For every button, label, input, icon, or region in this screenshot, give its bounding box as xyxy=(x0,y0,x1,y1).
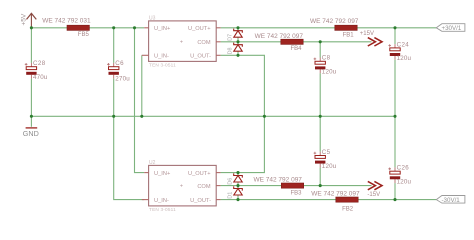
svg-text:U_OUT-: U_OUT- xyxy=(190,54,211,60)
svg-text:+: + xyxy=(180,40,183,46)
junction C6 rail xyxy=(112,115,115,118)
svg-text:120u: 120u xyxy=(397,179,412,186)
svg-text:120u: 120u xyxy=(322,163,337,170)
svg-text:C24: C24 xyxy=(397,41,410,48)
svg-text:U3: U3 xyxy=(149,15,156,21)
wire lower COM to -15V arrow xyxy=(221,185,372,187)
+15V output arrow xyxy=(368,38,382,46)
junction D6 D1 xyxy=(236,184,239,187)
svg-text:FB3: FB3 xyxy=(291,190,303,196)
wire C6 column upper xyxy=(113,28,115,63)
ferrite bead FB4 xyxy=(255,33,304,52)
junction D8 bottom xyxy=(236,54,239,57)
junction D7 D8 xyxy=(236,40,239,43)
svg-text:120u: 120u xyxy=(322,69,337,76)
svg-text:WE 742 792 097: WE 742 792 097 xyxy=(311,190,360,197)
junction C8 rail xyxy=(319,115,322,118)
-15V output arrow xyxy=(368,181,382,189)
wire C5 column lower xyxy=(319,167,321,185)
svg-text:U_IN-: U_IN- xyxy=(154,54,169,60)
wire U_OUT+ to +30V tag xyxy=(221,27,437,29)
junction out link rail xyxy=(263,115,266,118)
junction D6 top xyxy=(236,171,239,174)
junction gnd left xyxy=(30,115,33,118)
svg-text:270u: 270u xyxy=(115,76,130,83)
junction C26 bottom xyxy=(393,198,396,201)
wire C6 column to lower U_IN- xyxy=(114,79,145,200)
junction C24 top xyxy=(393,26,396,29)
+5V supply symbol xyxy=(21,13,37,28)
wire U_OUT- / lower U_OUT+ link xyxy=(221,55,265,172)
wire top U_IN- to gnd rail xyxy=(141,55,143,116)
wire lower U_OUT- to -30V tag xyxy=(221,199,437,201)
wire +5V feed to lower U_IN+ xyxy=(135,28,145,173)
svg-text:U_IN-: U_IN- xyxy=(154,198,169,204)
svg-text:U_OUT+: U_OUT+ xyxy=(188,171,211,177)
svg-text:U2: U2 xyxy=(149,160,156,166)
svg-text:120u: 120u xyxy=(397,55,412,62)
svg-text:C8: C8 xyxy=(322,55,331,62)
svg-text:WE 742 792 097: WE 742 792 097 xyxy=(254,176,303,183)
svg-text:FB4: FB4 xyxy=(291,46,303,52)
svg-text:U_OUT+: U_OUT+ xyxy=(188,26,211,32)
capacitor C24 xyxy=(388,41,411,62)
svg-text:C6: C6 xyxy=(115,60,124,67)
svg-text:-15V: -15V xyxy=(367,192,380,198)
junction feed top xyxy=(133,26,136,29)
svg-text:D6: D6 xyxy=(227,178,233,185)
junction C5 bottom xyxy=(319,184,322,187)
svg-text:D7: D7 xyxy=(227,34,233,41)
wire gnd rail xyxy=(31,115,395,117)
capacitor C26 xyxy=(388,165,411,186)
wire +5V top rail xyxy=(31,27,144,29)
capacitor C5 xyxy=(314,149,337,170)
junction C6 top xyxy=(112,26,115,29)
svg-text:C26: C26 xyxy=(397,165,410,172)
svg-text:WE 742 792 097: WE 742 792 097 xyxy=(310,18,359,25)
junction D7 top xyxy=(236,26,239,29)
wire C8-C5 column middle xyxy=(319,73,321,152)
junction U_IN- rail xyxy=(140,115,143,118)
svg-text:C28: C28 xyxy=(33,60,46,67)
net tag +30V/1 xyxy=(436,24,465,32)
junction C8 top xyxy=(319,40,322,43)
zener diode D6 xyxy=(227,173,242,186)
svg-text:+30V/1: +30V/1 xyxy=(442,25,462,32)
svg-text:U_IN+: U_IN+ xyxy=(154,26,171,32)
svg-text:TEN 3-0511: TEN 3-0511 xyxy=(149,63,176,68)
svg-text:TEN 3-0511: TEN 3-0511 xyxy=(149,207,176,212)
svg-text:FB1: FB1 xyxy=(343,32,355,38)
svg-text:D1: D1 xyxy=(227,192,233,199)
svg-text:U_OUT-: U_OUT- xyxy=(190,198,211,204)
wire gnd stub xyxy=(30,116,32,127)
ferrite bead FB5 xyxy=(42,18,91,38)
svg-text:FB2: FB2 xyxy=(342,207,354,213)
svg-text:WE 742 792 097: WE 742 792 097 xyxy=(255,33,304,40)
svg-text:WE 742 792 031: WE 742 792 031 xyxy=(42,18,91,25)
wire C26 column lower xyxy=(394,183,396,200)
DC-DC converter U3 xyxy=(142,15,221,67)
svg-text:-30V/1: -30V/1 xyxy=(442,197,461,204)
svg-text:+: + xyxy=(180,183,183,189)
svg-text:+15V: +15V xyxy=(360,31,374,37)
wire C24 column upper xyxy=(394,28,396,44)
svg-text:FB5: FB5 xyxy=(78,32,90,38)
zener diode D1 xyxy=(227,186,242,200)
capacitor C8 xyxy=(314,55,337,76)
wire C28 column upper xyxy=(30,28,32,63)
svg-text:470u: 470u xyxy=(33,74,48,81)
ground symbol GND xyxy=(23,128,39,138)
svg-text:COM: COM xyxy=(197,40,211,46)
svg-text:D8: D8 xyxy=(227,47,233,54)
svg-text:U_IN+: U_IN+ xyxy=(154,171,171,177)
net tag -30V/1 xyxy=(436,196,465,204)
wire C28 column lower xyxy=(30,79,32,117)
junction +5V xyxy=(30,26,33,29)
wire COM to +15V arrow xyxy=(221,41,372,43)
svg-text:COM: COM xyxy=(197,184,211,190)
DC-DC converter U2 xyxy=(142,160,221,212)
junction C24 rail xyxy=(393,115,396,118)
junction D1 bottom xyxy=(236,198,239,201)
svg-text:C5: C5 xyxy=(322,149,331,156)
wire C24-C26 column middle xyxy=(394,60,396,168)
ferrite bead FB2 xyxy=(311,190,360,212)
zener diode D7 xyxy=(227,28,242,42)
capacitor C28 xyxy=(25,60,48,81)
svg-text:+5V: +5V xyxy=(21,13,28,26)
svg-text:GND: GND xyxy=(23,129,39,138)
wire C8 column upper xyxy=(319,42,321,58)
zener diode D8 xyxy=(227,42,242,56)
ferrite bead FB3 xyxy=(254,176,304,196)
capacitor C6 xyxy=(107,60,130,83)
ferrite bead FB1 xyxy=(310,18,359,38)
